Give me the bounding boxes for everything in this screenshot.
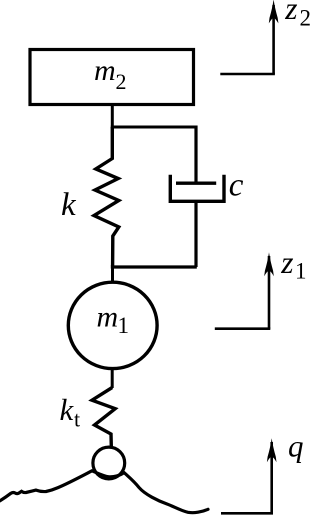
damper cup [170, 175, 224, 202]
wire junction horizontal [111, 265, 197, 268]
svg-text:q: q [288, 429, 304, 464]
axis q arrow shaft [270, 442, 273, 513]
svg-text:z: z [280, 245, 293, 280]
svg-text:t: t [74, 406, 80, 431]
svg-text:m: m [94, 54, 116, 87]
axis z2 arrowhead [269, 0, 279, 23]
wire damper top lead [194, 126, 197, 184]
svg-text:1: 1 [295, 259, 307, 284]
axis q arrowhead [267, 438, 277, 462]
svg-text:1: 1 [118, 313, 130, 338]
wire branch horizontal [111, 126, 196, 129]
wire m1 to spring kt [111, 369, 114, 388]
svg-text:c: c [229, 168, 244, 204]
wire junction to m1 [111, 264, 114, 283]
axis z1 arrow shaft [268, 256, 271, 329]
svg-text:k: k [61, 187, 77, 223]
svg-text:k: k [60, 392, 75, 427]
svg-text:2: 2 [300, 5, 311, 30]
damper piston plate [176, 181, 216, 184]
wire rect to branch [111, 105, 114, 129]
axis z2 horizontal [220, 73, 275, 76]
mass m2 body [30, 50, 194, 105]
axis z1 arrowhead [264, 252, 274, 276]
svg-text:2: 2 [116, 69, 127, 94]
axis q horizontal [221, 512, 273, 515]
spring k [94, 127, 119, 266]
svg-text:z: z [284, 0, 297, 26]
axis z2 arrow shaft [272, 5, 275, 74]
wire damper bottom lead [194, 201, 197, 267]
axis z1 horizontal [215, 327, 270, 330]
spring kt [92, 388, 115, 447]
mass m1 circle [68, 282, 157, 368]
wheel contact circle [93, 447, 125, 479]
ground profile [0, 471, 208, 513]
svg-text:m: m [97, 301, 119, 334]
